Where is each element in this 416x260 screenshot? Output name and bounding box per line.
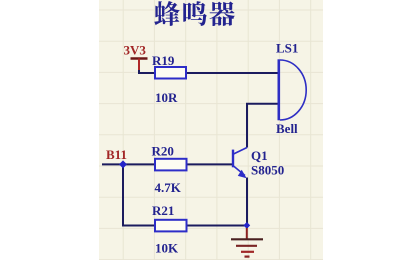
svg-text:R20: R20 [152, 144, 174, 159]
svg-text:Bell: Bell [276, 121, 298, 136]
svg-text:R21: R21 [152, 203, 174, 218]
svg-text:10R: 10R [155, 90, 178, 105]
svg-text:Q1: Q1 [251, 148, 268, 163]
svg-text:LS1: LS1 [276, 41, 298, 56]
svg-text:4.7K: 4.7K [155, 180, 182, 195]
svg-text:R19: R19 [152, 53, 175, 68]
svg-text:10K: 10K [155, 241, 179, 256]
svg-text:S8050: S8050 [251, 163, 284, 178]
svg-text:B11: B11 [106, 147, 127, 162]
svg-text:3V3: 3V3 [124, 43, 147, 58]
